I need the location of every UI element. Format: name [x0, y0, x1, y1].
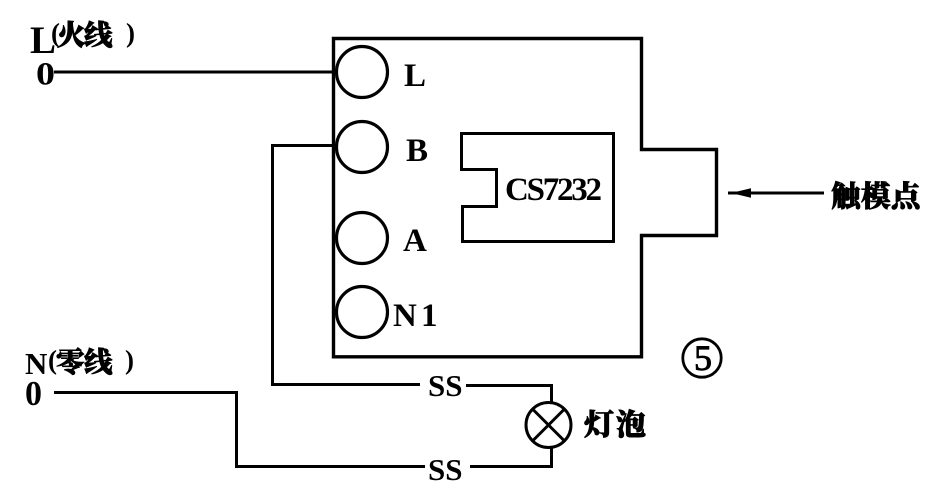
svg-text:0: 0	[25, 374, 42, 413]
pin L	[337, 47, 388, 98]
svg-text:CS7232: CS7232	[505, 172, 602, 208]
label hot-wire char huo	[58, 21, 86, 48]
svg-text:A: A	[403, 223, 427, 259]
IC CS7232 chip outline	[462, 134, 614, 242]
label neutral char ling	[57, 348, 84, 375]
pin A	[337, 213, 388, 264]
label hot-wire char xian	[84, 21, 112, 48]
label touch-point char mo	[861, 181, 890, 209]
svg-text:SS: SS	[428, 452, 462, 487]
svg-text:0: 0	[36, 57, 55, 93]
svg-text:): )	[125, 345, 134, 375]
figure number 5 circled	[683, 339, 721, 377]
svg-text:L: L	[404, 58, 426, 94]
label touch-point char chu	[832, 181, 860, 209]
arrow to touch point	[728, 192, 824, 195]
wire from L terminal to pin L	[54, 71, 337, 74]
label lamp char pao	[617, 409, 646, 438]
label neutral char xian2	[84, 348, 112, 375]
svg-text:B: B	[406, 133, 428, 169]
svg-text:(: (	[48, 345, 57, 375]
wire pin B to SS (upper)	[273, 146, 552, 404]
pin N1	[337, 287, 388, 338]
svg-text:(: (	[51, 18, 60, 48]
svg-text:5: 5	[694, 338, 712, 378]
lamp DS1 (bulb)	[526, 403, 571, 448]
wire lamp to SS (lower) to N terminal	[54, 393, 552, 467]
svg-text:N: N	[393, 298, 417, 334]
pin B	[337, 122, 388, 173]
svg-text:1: 1	[421, 298, 438, 334]
svg-text:SS: SS	[428, 368, 462, 403]
label lamp char deng	[585, 410, 614, 438]
svg-text:): )	[126, 18, 135, 48]
label touch-point char dian	[892, 181, 920, 209]
IC module box U1 with touch tab	[334, 39, 717, 357]
